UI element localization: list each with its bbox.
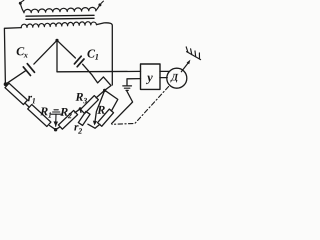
wire: secondary right end to right rail — [97, 23, 113, 85]
label u — [146, 76, 153, 84]
bridge arm wire (apex to C1) — [57, 40, 75, 58]
wiper arrow of r2 — [93, 92, 104, 126]
amplifier U box — [141, 64, 161, 89]
wire: bridge output to amplifier — [57, 70, 141, 72]
secondary winding L2 — [21, 22, 96, 28]
bridge arm wire (apex to Cx) — [34, 40, 57, 64]
capacitor C1 — [74, 56, 84, 66]
node: apex (top bridge vertex) — [55, 39, 58, 42]
label r2 — [74, 125, 82, 134]
label R1 — [40, 107, 51, 117]
meter scale with ticks — [186, 47, 200, 60]
label R3 — [75, 93, 87, 103]
ground G2 — [123, 86, 132, 91]
bridge arm wire with jog (C1 to right vertex) — [83, 64, 111, 90]
node: left bridge vertex — [4, 82, 8, 86]
resistor R3 (box) — [80, 90, 104, 113]
label r1 — [28, 96, 35, 104]
wire: ground-side chevron to mechanical link — [112, 91, 133, 124]
resistor R1 (box on left-lower arm) — [26, 104, 56, 130]
mechanical link (dash-dot) detector to wiper — [112, 87, 169, 125]
amplifier lower input to ground — [127, 79, 141, 85]
resistor R2 (box on right-lower arm) — [56, 109, 81, 130]
wire: apex down — [56, 40, 58, 72]
node: right bridge vertex — [103, 89, 106, 92]
label Cx — [17, 47, 28, 57]
node: bottom vertex — [54, 128, 57, 131]
meter needle — [181, 63, 188, 72]
label R — [97, 106, 105, 114]
wires amplifier to detector — [160, 70, 169, 72]
potentiometer r2 (box) — [78, 109, 95, 128]
transformer core — [26, 14, 94, 17]
bridge arm wire (Cx to left vertex) — [6, 71, 26, 84]
ground G1 with arrow into bottom vertex — [51, 110, 61, 127]
resistor R (box) — [95, 90, 118, 128]
antenna coil L1 (primary winding) — [24, 7, 96, 12]
node J1 (junction R2/R3) — [79, 107, 82, 110]
label R2 — [60, 108, 72, 118]
terminal T2 (antenna input right) — [96, 1, 104, 11]
label C1 — [87, 50, 98, 60]
wire: secondary left end to left rail — [4, 28, 21, 85]
terminal T1 (antenna input left) — [19, 0, 24, 12]
detector D circle — [167, 68, 187, 88]
label D — [170, 74, 178, 83]
capacitor Cx — [23, 64, 34, 76]
resistor r1 (box on left-lower arm) — [5, 83, 27, 104]
